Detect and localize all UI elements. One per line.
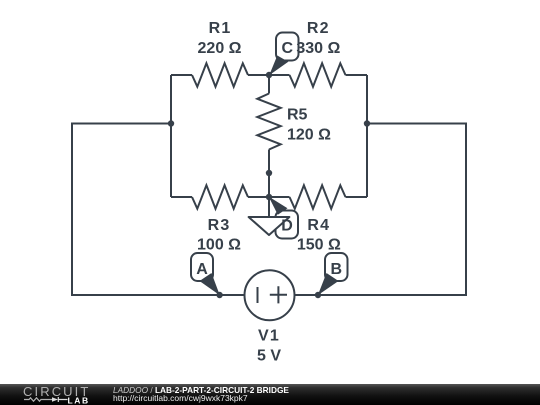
junction node A dot: [216, 292, 222, 298]
junction dot right (node B branch): [364, 120, 370, 126]
resistor R5 120ohm (middle vertical zigzag): [257, 94, 280, 150]
V1 plus sign: [270, 286, 287, 303]
junction dot left (node A branch): [168, 120, 174, 126]
resistor R3 100ohm (bottom-left zigzag): [192, 185, 248, 208]
wire right vertical of bridge: [366, 75, 368, 197]
ground symbol triangle: [249, 217, 290, 235]
svg-text:100 Ω: 100 Ω: [197, 237, 241, 254]
resistor R2 330ohm (top-right zigzag): [290, 63, 346, 86]
svg-text:R2: R2: [307, 20, 330, 37]
svg-text:R5: R5: [287, 107, 308, 124]
wire R3 to node D: [248, 196, 269, 198]
junction dot R5 bottom: [266, 170, 272, 176]
svg-text:330 Ω: 330 Ω: [296, 40, 340, 57]
svg-text:120 Ω: 120 Ω: [287, 127, 331, 144]
node C flag pointer: [269, 56, 288, 76]
voltage source V1 circle: [245, 270, 295, 320]
svg-text:220 Ω: 220 Ω: [198, 40, 242, 57]
wire left rail (node A loop): [72, 124, 245, 296]
node B flag pointer: [318, 273, 339, 295]
svg-text:R3: R3: [208, 217, 231, 234]
wire left vertical of bridge: [170, 75, 172, 197]
svg-text:150 Ω: 150 Ω: [297, 237, 341, 254]
svg-text:D: D: [281, 218, 293, 235]
wire R1 to node C: [248, 74, 269, 76]
svg-text:http://circuitlab.com/cwj9wxk7: http://circuitlab.com/cwj9wxk73kpk7: [113, 393, 248, 403]
logo diode symbol: [52, 397, 58, 402]
wire bottom-left (to R3 left lead): [171, 196, 192, 198]
wire node C to R2: [269, 74, 290, 76]
junction node D dot: [266, 194, 272, 200]
node C label box: [276, 33, 299, 61]
resistor R1 220ohm (top-left zigzag): [192, 63, 248, 86]
wire R5 bottom lead to node D: [268, 150, 270, 198]
wire top-left (node A to R1 left lead): [171, 74, 192, 76]
wire node C to R5 top lead: [268, 75, 270, 94]
node D label box: [276, 211, 299, 239]
wire ground stub from node D: [268, 197, 270, 216]
svg-text:A: A: [196, 261, 208, 278]
svg-text:B: B: [331, 261, 343, 278]
junction node C dot: [266, 72, 272, 78]
svg-text:V1: V1: [258, 328, 280, 345]
node A flag pointer: [200, 273, 220, 295]
wire top-right (R2 to node B branch): [346, 74, 368, 76]
wire right rail (node B loop): [295, 124, 467, 296]
svg-text:R1: R1: [209, 20, 232, 37]
wire node D to R4: [269, 196, 290, 198]
svg-text:LAB: LAB: [68, 395, 90, 405]
node B label box: [325, 253, 348, 281]
svg-text:5 V: 5 V: [257, 347, 281, 364]
resistor R4 150ohm (bottom-right zigzag): [290, 185, 346, 208]
logo resistor zigzag: [24, 398, 52, 401]
svg-text:C: C: [282, 40, 294, 57]
svg-text:R4: R4: [307, 217, 330, 234]
wire bottom-right (R4 to right vertical): [346, 196, 368, 198]
node D flag pointer: [269, 197, 288, 215]
V1 minus terminal bar: [257, 287, 259, 303]
junction node B dot: [315, 292, 321, 298]
node A label box: [191, 253, 213, 281]
